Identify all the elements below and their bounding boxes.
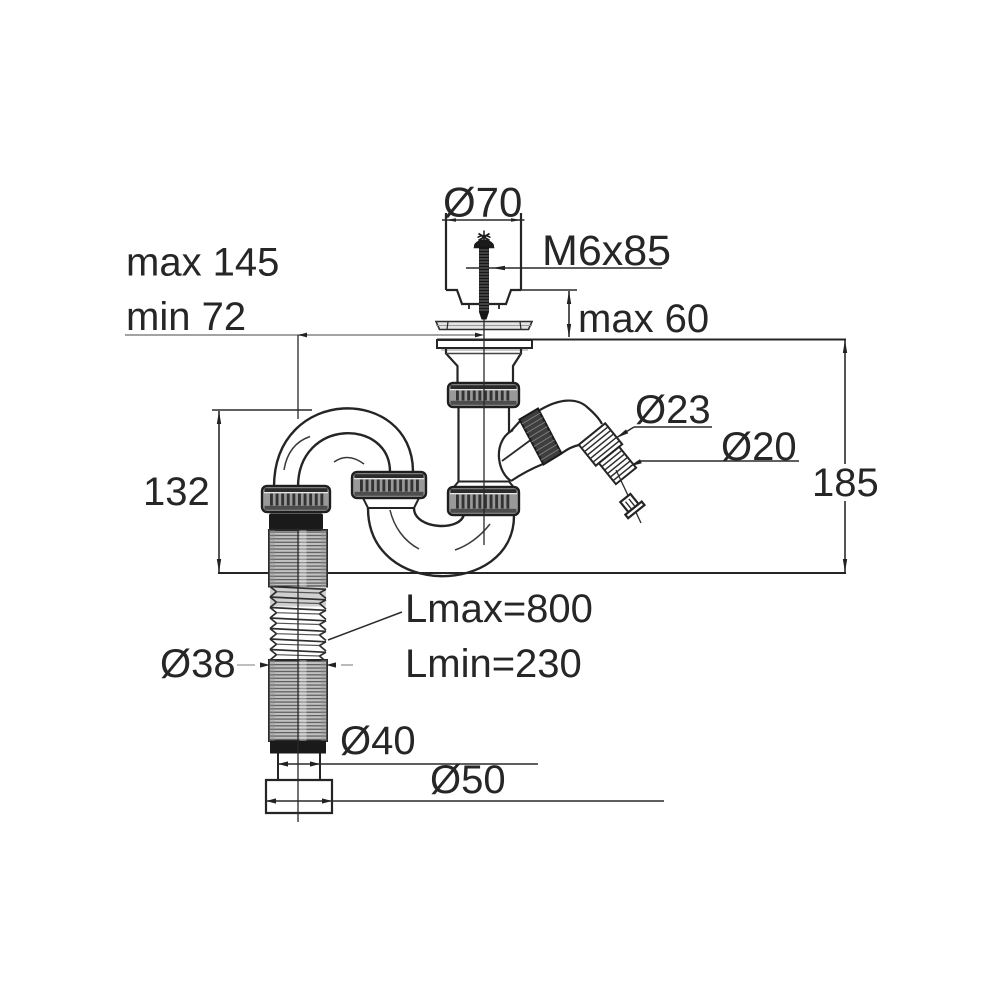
svg-text:Ø20: Ø20 <box>721 425 797 469</box>
svg-text:Ø70: Ø70 <box>443 179 522 226</box>
svg-text:max 145: max 145 <box>126 241 279 285</box>
svg-text:Ø38: Ø38 <box>160 642 236 686</box>
svg-text:132: 132 <box>143 470 210 514</box>
svg-text:Lmax=800: Lmax=800 <box>405 587 593 631</box>
svg-text:Ø50: Ø50 <box>430 758 506 802</box>
svg-text:max 60: max 60 <box>578 297 709 341</box>
svg-text:min 72: min 72 <box>126 295 246 339</box>
svg-text:Lmin=230: Lmin=230 <box>405 642 582 686</box>
svg-text:M6x85: M6x85 <box>542 227 671 275</box>
svg-text:185: 185 <box>812 461 879 505</box>
svg-text:Ø23: Ø23 <box>635 388 711 432</box>
svg-text:Ø40: Ø40 <box>340 719 416 763</box>
